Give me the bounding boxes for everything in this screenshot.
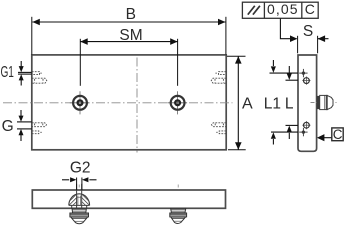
side view lower screw hole (302, 121, 310, 129)
dimension L1 (264, 60, 298, 145)
leader from tolerance frame (280, 19, 297, 43)
svg-text:L1: L1 (264, 96, 281, 113)
nozzle N2 front view (170, 208, 187, 223)
vertical center line of plate (136, 58, 138, 153)
nozzle N1 center line (78, 185, 80, 190)
svg-text:B: B (126, 6, 136, 23)
datum C symbol (317, 127, 343, 142)
svg-text:L: L (285, 96, 294, 113)
slot G1 tick (40, 72, 42, 74)
hole H2 (167, 91, 187, 114)
hidden slot top-right (219, 72, 227, 75)
nozzle N1 lower stack (70, 208, 89, 223)
svg-text:G2: G2 (70, 159, 91, 176)
hidden screw bottom-right (212, 123, 227, 127)
hidden small hole bottom-right (219, 131, 226, 134)
nozzle N1 tip line (74, 220, 84, 222)
small hole tick bottom-right (216, 131, 218, 133)
dimension G (2, 110, 24, 141)
svg-text:G1: G1 (0, 64, 14, 81)
nozzle N2 tip line (174, 220, 181, 222)
side view outline (298, 55, 317, 151)
dimension L (285, 66, 298, 139)
nozzle N1 section: dome (69, 194, 90, 206)
svg-text:G: G (2, 118, 14, 135)
svg-text:C: C (333, 127, 343, 142)
dimension B (32, 6, 226, 55)
dimension G1 (0, 61, 23, 86)
feature control frame // 0,05 C (242, 1, 318, 18)
plate top view outline (32, 55, 226, 150)
side view lower slot center (299, 128, 307, 136)
slot G1 left edge lines (18, 72, 32, 74)
slot tick top-right (215, 72, 217, 74)
nozzle N1 hatch (69, 194, 89, 205)
small hole tick bottom-left (40, 131, 42, 133)
side view upper slot center (299, 69, 307, 77)
nozzle N1 stem (77, 184, 82, 208)
svg-text:SM: SM (119, 27, 142, 44)
dimension A (227, 56, 253, 150)
side view upper screw hole (302, 77, 310, 85)
nozzle N1 seat shoulders (72, 205, 87, 208)
dimension SM (80, 27, 177, 86)
hidden screw top-left (32, 78, 47, 83)
side view plug (317, 95, 333, 109)
hidden small hole bottom-left (32, 131, 39, 134)
hole H1 (70, 91, 90, 114)
dimension S (298, 23, 329, 53)
svg-text:C: C (305, 1, 315, 17)
svg-text:S: S (303, 23, 313, 40)
nozzle N2 center line (177, 185, 179, 190)
hidden screw bottom-left (32, 123, 47, 127)
svg-text:0,05: 0,05 (267, 1, 299, 17)
dimension G2 (62, 159, 97, 190)
horizontal center line through holes (3, 102, 233, 104)
bar front view outline (32, 190, 225, 208)
hidden screw top-right (211, 78, 226, 83)
slot G left edge lines (17, 122, 32, 129)
side view plug center line (311, 102, 337, 104)
hidden slot G1 inside plate (32, 72, 40, 75)
svg-text:A: A (242, 96, 253, 113)
